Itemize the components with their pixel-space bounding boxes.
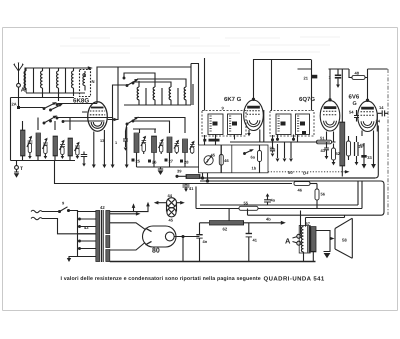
svg-text:6K7 G: 6K7 G (224, 96, 242, 103)
wire osc bus (137, 166, 200, 168)
field coil 52 (340, 69, 345, 177)
node 27 (165, 153, 174, 168)
svg-text:54: 54 (349, 110, 354, 115)
capacitor C1p (329, 69, 342, 88)
ground g5 (158, 167, 164, 175)
svg-text:A: A (285, 237, 291, 246)
svg-text:43: 43 (84, 225, 89, 230)
bleed-through (decorative) (60, 37, 340, 53)
wire coil drops (23, 118, 71, 131)
switch S1a band (43, 102, 63, 111)
svg-text:39: 39 (177, 169, 182, 174)
resistor R46 (219, 145, 229, 173)
switch S1b band (43, 116, 64, 124)
svg-text:46: 46 (298, 188, 303, 193)
wire V2 top (254, 60, 312, 100)
phono jack A (285, 211, 301, 246)
tube V2 6K7G (224, 96, 263, 131)
wire lamp left (154, 201, 167, 205)
capacitor C36 (270, 140, 276, 157)
resistor R53 (332, 144, 341, 166)
detector box (199, 145, 269, 173)
svg-text:6a: 6a (251, 155, 256, 160)
svg-text:58: 58 (342, 238, 347, 243)
svg-text:42: 42 (100, 205, 105, 210)
power transformer T3 (84, 205, 110, 262)
wire top bus (25, 68, 91, 90)
wire IF2 feed (272, 60, 312, 111)
resistor R56 (294, 182, 317, 193)
ground g8 (289, 159, 293, 162)
choke 62 (200, 209, 286, 232)
wire primary taps (78, 211, 96, 257)
capacitor C4n (196, 223, 207, 262)
resistor R57v (315, 184, 326, 209)
ground mains (67, 257, 78, 263)
node 25 (132, 153, 141, 168)
svg-text:I valori delle resistenze e co: I valori delle resistenze e condensatori… (61, 276, 261, 282)
ground terminal T (14, 161, 23, 178)
ground g1 (92, 165, 96, 169)
wire cathode grounds (94, 118, 127, 166)
svg-text:55: 55 (244, 201, 249, 206)
capacitor C54 (349, 110, 359, 122)
wire detector row (230, 141, 330, 143)
wire AVC bus (55, 161, 293, 184)
resistor R51 (313, 136, 336, 144)
wire lamp right (177, 201, 185, 205)
wire T2 bottom (273, 135, 298, 143)
svg-text:80: 80 (152, 248, 160, 255)
coil M2 (36, 133, 48, 159)
wire switch to grid (58, 103, 97, 105)
switch 6a (244, 149, 256, 159)
svg-text:6K8G: 6K8G (73, 98, 89, 105)
coil R1 (137, 87, 139, 102)
wire osc fan (113, 73, 187, 118)
wire secondary taps (110, 212, 145, 262)
svg-text:1s: 1s (358, 144, 363, 149)
capacitor C49 (355, 136, 365, 165)
dial lamps 44 (167, 193, 177, 223)
wire det grounds (278, 142, 292, 158)
coil M1 (21, 130, 33, 159)
potentiometer 45 (204, 153, 216, 165)
wire coil bottoms (11, 93, 86, 98)
tube V1 6K8G (73, 98, 107, 132)
coil R3 (169, 87, 171, 102)
coil R4 (184, 87, 186, 102)
coil O4 (183, 139, 195, 154)
tube V4 6V6 (349, 94, 378, 132)
svg-text:1: 1 (115, 141, 117, 145)
svg-text:34: 34 (376, 119, 381, 124)
wire V3 top (298, 69, 350, 100)
wire osc fan2 (133, 118, 185, 134)
wire B+ bus1 (199, 177, 376, 179)
switch S2b osc (126, 117, 139, 125)
ground g4 (125, 165, 129, 169)
svg-text:43: 43 (321, 148, 326, 153)
capacitor C52 (321, 142, 329, 159)
svg-text:4a: 4a (271, 198, 276, 203)
svg-text:G: G (353, 101, 357, 107)
wire voice coil (316, 231, 335, 252)
coil R2 (153, 87, 155, 102)
wire chassis dashdot (387, 69, 389, 215)
wire B+ out (174, 236, 199, 238)
capacitor C24 (123, 124, 128, 151)
coil M4 (68, 138, 80, 159)
svg-text:2A: 2A (12, 102, 17, 107)
rectifier V5 80 (143, 226, 177, 255)
IF transformer T2 (270, 111, 314, 137)
svg-text:50: 50 (288, 170, 293, 175)
wire V1 leads (82, 67, 118, 120)
wire det box feet (203, 173, 208, 181)
wire T1 bottom (205, 135, 235, 146)
node 28 (180, 153, 189, 168)
wire bus mid (124, 102, 191, 105)
coil O1 (134, 133, 146, 154)
wire heater line2 (196, 181, 362, 209)
ground g2 (102, 165, 106, 169)
output transformer T4 (299, 221, 316, 262)
caption (61, 276, 325, 283)
resistor R55 (239, 201, 258, 211)
coil L5 shielded (80, 70, 95, 97)
wire rf returns (139, 81, 193, 105)
svg-text:6V6: 6V6 (349, 94, 360, 101)
resistor R47 (258, 145, 262, 173)
svg-text:46: 46 (224, 158, 229, 163)
coil L1 (24, 68, 26, 93)
wire IF1 feed (204, 58, 206, 111)
IF transformer T1 (202, 106, 246, 137)
wire left rail (10, 98, 12, 161)
tube V3 6Q7G (299, 96, 340, 131)
resistor R41 (176, 169, 200, 179)
svg-text:4b: 4b (266, 217, 271, 222)
svg-text:48: 48 (355, 71, 360, 76)
node 2A (12, 102, 21, 110)
wire V4 top (368, 69, 388, 100)
wire chassis bus left (11, 156, 76, 161)
capacitor C21 (304, 75, 318, 81)
AVC dotted line (268, 170, 350, 176)
svg-text:33: 33 (367, 155, 372, 160)
svg-text:41: 41 (189, 186, 194, 191)
wire B+ bus2 (200, 181, 384, 215)
node 08 (203, 139, 219, 142)
antenna A (13, 63, 26, 94)
svg-text:N: N (92, 79, 95, 84)
capacitor C4a (264, 193, 276, 205)
ground g9 (371, 131, 376, 169)
coil O2 (152, 136, 164, 154)
wire filament arrows (110, 202, 150, 216)
resistor R48 (349, 69, 368, 79)
wire heater line1 (200, 181, 358, 205)
wire V4 rail (375, 126, 378, 179)
wire switch row to coils (57, 118, 113, 122)
svg-text:21: 21 (304, 76, 309, 81)
wire V2 leads (249, 110, 264, 142)
ground g3 (111, 165, 115, 169)
svg-text:QUADRI-UNDA 541: QUADRI-UNDA 541 (264, 276, 325, 283)
coil L3 (57, 68, 59, 101)
svg-text:1b: 1b (252, 166, 257, 171)
wire bus segment right (97, 67, 191, 104)
coil L4 (72, 68, 74, 96)
svg-text:6Q7G: 6Q7G (299, 96, 315, 103)
wire V3 cathode leads (327, 132, 334, 143)
wire V4 cathode (362, 114, 377, 136)
ground g7 (283, 159, 287, 162)
capacitor C33 (358, 143, 373, 169)
svg-text:45: 45 (169, 218, 174, 223)
node 26 (148, 153, 157, 168)
ground g6 (276, 159, 280, 162)
wire bottom bus (110, 261, 316, 263)
resistor R49a (347, 136, 351, 160)
svg-text:41: 41 (253, 238, 258, 243)
wire screen feed (247, 209, 249, 216)
capacitor C31 (81, 152, 87, 167)
mains cord (31, 210, 96, 234)
switch S3 mains (59, 201, 78, 213)
coil M3 (53, 136, 65, 159)
svg-text:62: 62 (223, 227, 228, 232)
switch S2a osc (123, 77, 139, 86)
wire plate rail (191, 64, 199, 146)
ground g11 (324, 252, 331, 259)
svg-text:14: 14 (379, 105, 384, 110)
wire OT feed (306, 215, 345, 226)
svg-text:T: T (20, 166, 23, 172)
svg-text:D+: D+ (303, 171, 309, 176)
coil L2 (41, 68, 43, 97)
coil O3 (167, 137, 179, 154)
svg-text:4n: 4n (203, 239, 208, 244)
svg-text:26: 26 (152, 160, 157, 165)
capacitor C42 (183, 184, 195, 192)
wire antenna lead (19, 87, 44, 107)
svg-text:13: 13 (100, 139, 104, 143)
capacitor C14 (376, 105, 389, 124)
svg-text:45: 45 (211, 153, 216, 158)
wire coil returns (34, 68, 66, 93)
speaker LS (335, 218, 352, 258)
capacitor C41 (246, 223, 258, 262)
svg-text:56: 56 (321, 192, 326, 197)
